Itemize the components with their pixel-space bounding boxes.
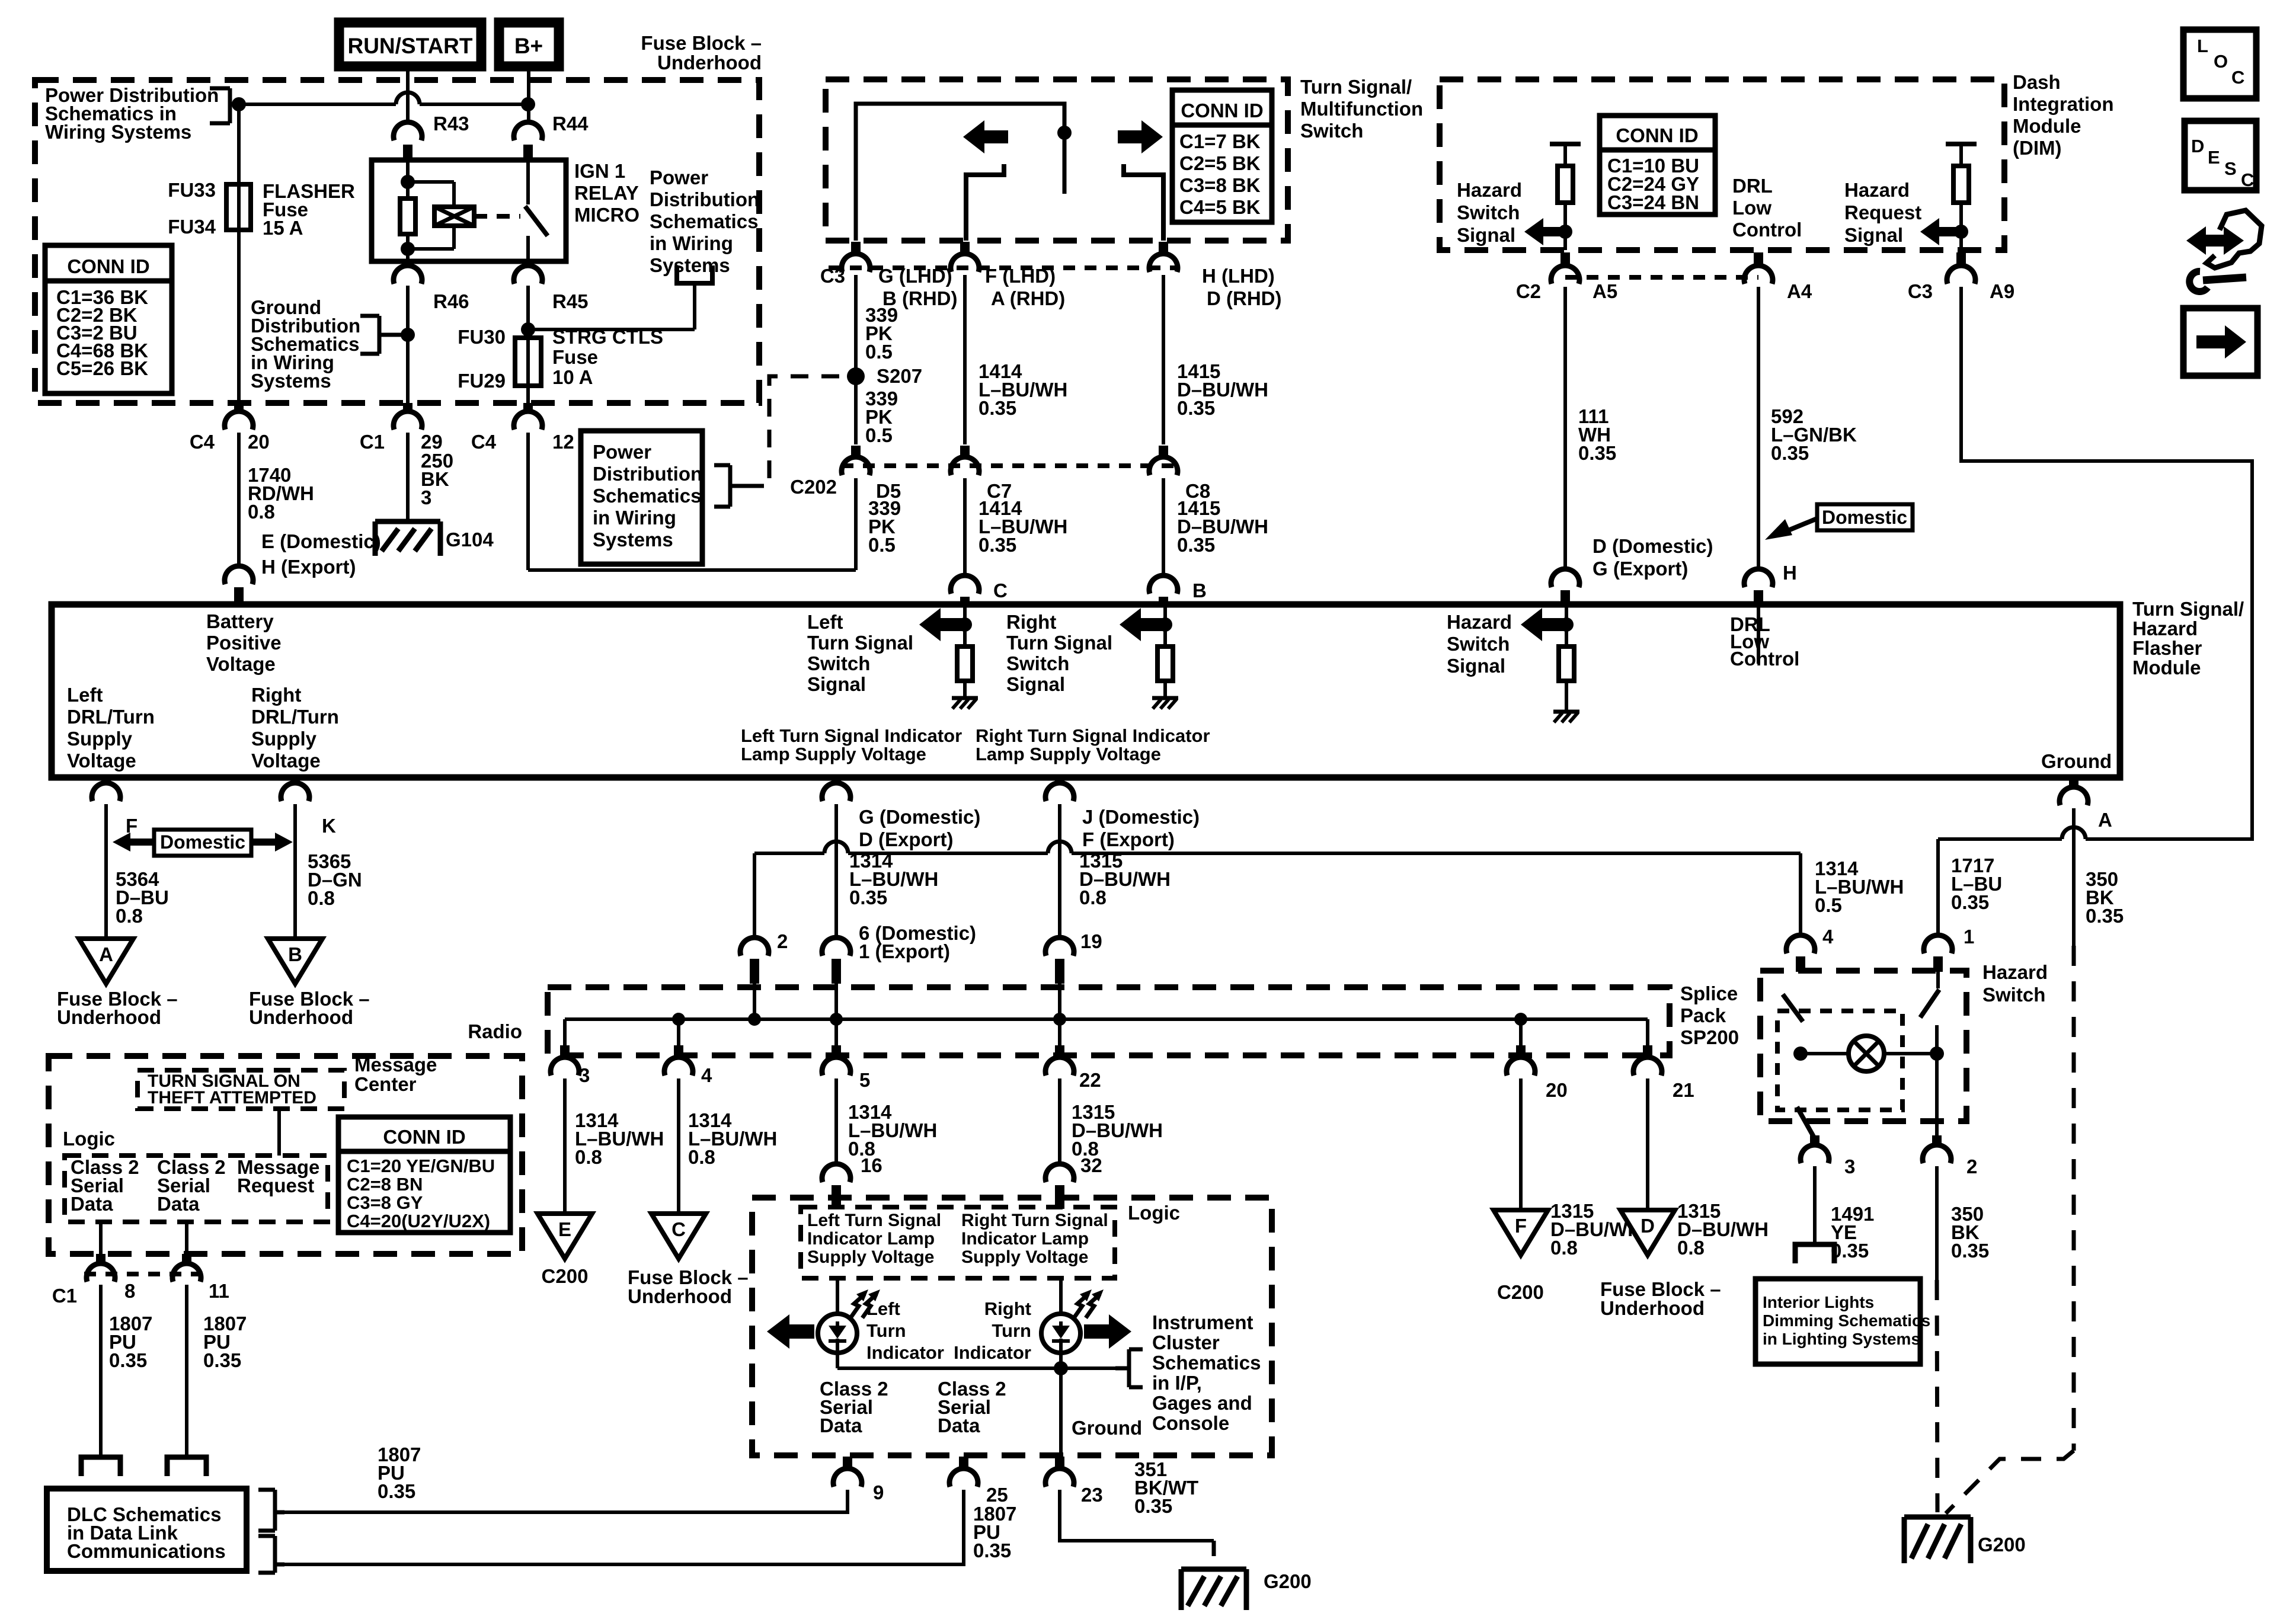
svg-text:8: 8: [124, 1280, 135, 1302]
svg-text:Positive: Positive: [206, 632, 282, 654]
svg-text:in I/P,: in I/P,: [1152, 1372, 1202, 1394]
svg-text:CONN ID: CONN ID: [1181, 100, 1263, 121]
svg-text:Instrument: Instrument: [1152, 1311, 1253, 1333]
svg-text:12: 12: [552, 431, 574, 453]
svg-text:Supply: Supply: [251, 728, 317, 750]
svg-text:15 A: 15 A: [263, 217, 303, 239]
svg-text:E: E: [558, 1218, 571, 1240]
svg-text:A (RHD): A (RHD): [991, 287, 1065, 309]
svg-text:4: 4: [1822, 926, 1834, 948]
svg-text:Underhood: Underhood: [249, 1006, 353, 1028]
svg-text:THEFT ATTEMPTED: THEFT ATTEMPTED: [148, 1088, 316, 1108]
svg-text:16: 16: [861, 1154, 882, 1176]
svg-text:0.5: 0.5: [865, 424, 893, 446]
svg-text:Dimming Schematics: Dimming Schematics: [1763, 1311, 1930, 1330]
svg-text:C: C: [2241, 169, 2254, 190]
svg-text:K: K: [322, 815, 336, 837]
svg-text:0.35: 0.35: [849, 886, 887, 908]
svg-text:RELAY: RELAY: [574, 182, 639, 204]
svg-text:Voltage: Voltage: [206, 653, 276, 675]
svg-text:Radio: Radio: [468, 1020, 522, 1042]
svg-text:R46: R46: [433, 290, 469, 312]
svg-text:C: C: [2231, 67, 2244, 88]
svg-text:C200: C200: [542, 1265, 589, 1287]
svg-text:Domestic: Domestic: [1822, 507, 1907, 528]
svg-text:Signal: Signal: [1844, 224, 1903, 246]
svg-text:0.35: 0.35: [978, 397, 1016, 419]
svg-text:B: B: [1192, 580, 1207, 601]
svg-text:C2=5 BK: C2=5 BK: [1179, 152, 1261, 174]
svg-text:Message: Message: [354, 1054, 437, 1076]
svg-text:1: 1: [1964, 926, 1974, 948]
svg-text:Lamp Supply Voltage: Lamp Supply Voltage: [741, 744, 926, 764]
svg-text:Data: Data: [938, 1414, 980, 1436]
svg-text:FU30: FU30: [458, 326, 506, 348]
svg-text:SP200: SP200: [1680, 1026, 1739, 1048]
svg-text:Distribution: Distribution: [593, 463, 702, 485]
svg-text:0.8: 0.8: [575, 1146, 602, 1168]
svg-text:32: 32: [1080, 1154, 1102, 1176]
svg-text:Dash: Dash: [2013, 71, 2061, 93]
svg-text:Underhood: Underhood: [1600, 1297, 1705, 1319]
svg-text:Systems: Systems: [650, 254, 730, 276]
svg-text:C4: C4: [471, 431, 497, 453]
svg-text:Systems: Systems: [593, 529, 673, 551]
svg-text:CONN ID: CONN ID: [1616, 124, 1698, 146]
svg-text:2: 2: [777, 930, 788, 952]
svg-text:0.8: 0.8: [308, 887, 335, 909]
svg-text:4: 4: [701, 1064, 712, 1086]
svg-text:F: F: [1515, 1215, 1527, 1237]
svg-text:C202: C202: [790, 476, 837, 498]
svg-text:C3=8 GY: C3=8 GY: [347, 1192, 423, 1213]
svg-text:Right: Right: [1006, 611, 1056, 633]
svg-text:D (RHD): D (RHD): [1207, 287, 1281, 309]
svg-text:Lamp Supply Voltage: Lamp Supply Voltage: [976, 744, 1161, 764]
svg-text:0.8: 0.8: [1677, 1237, 1705, 1259]
svg-text:Module: Module: [2132, 657, 2201, 679]
svg-text:C4: C4: [190, 431, 215, 453]
svg-text:R45: R45: [552, 290, 589, 312]
svg-text:C2: C2: [1516, 280, 1541, 302]
svg-text:0.35: 0.35: [978, 534, 1016, 556]
svg-text:Supply: Supply: [67, 728, 133, 750]
svg-text:C3: C3: [820, 265, 845, 287]
svg-text:Interior Lights: Interior Lights: [1763, 1293, 1874, 1311]
svg-text:Turn Signal: Turn Signal: [1006, 632, 1112, 654]
svg-text:C3=24 BN: C3=24 BN: [1607, 191, 1699, 213]
svg-text:Request: Request: [1844, 201, 1921, 223]
svg-text:0.8: 0.8: [1550, 1237, 1578, 1259]
svg-text:9: 9: [873, 1481, 884, 1503]
svg-text:19: 19: [1080, 930, 1102, 952]
svg-text:0.35: 0.35: [1771, 442, 1809, 464]
svg-text:FU33: FU33: [168, 179, 216, 201]
svg-text:DRL/Turn: DRL/Turn: [67, 706, 155, 728]
svg-text:A9: A9: [1990, 280, 2014, 302]
svg-text:L: L: [2197, 36, 2208, 56]
svg-text:Underhood: Underhood: [628, 1285, 732, 1307]
svg-text:Switch: Switch: [1300, 120, 1363, 142]
svg-text:Module: Module: [2013, 115, 2081, 137]
svg-text:C3=8 BK: C3=8 BK: [1179, 174, 1261, 196]
svg-text:1 (Export): 1 (Export): [859, 940, 950, 962]
svg-text:D: D: [2191, 136, 2204, 156]
svg-text:Voltage: Voltage: [251, 750, 321, 772]
svg-text:Switch: Switch: [1006, 652, 1069, 674]
svg-text:2: 2: [1966, 1156, 1977, 1177]
svg-text:3: 3: [579, 1064, 590, 1086]
svg-text:CONN ID: CONN ID: [67, 255, 149, 277]
svg-text:Hazard: Hazard: [1447, 611, 1512, 633]
svg-text:20: 20: [1546, 1079, 1568, 1101]
svg-text:C1=7 BK: C1=7 BK: [1179, 130, 1261, 152]
svg-text:Right: Right: [251, 684, 301, 706]
svg-text:G (LHD): G (LHD): [878, 265, 952, 287]
svg-text:(DIM): (DIM): [2013, 137, 2061, 159]
svg-text:F (Export): F (Export): [1082, 828, 1175, 850]
svg-text:0.8: 0.8: [116, 905, 143, 927]
svg-text:0.35: 0.35: [203, 1349, 241, 1371]
svg-text:0.5: 0.5: [1815, 894, 1842, 916]
svg-text:Flasher: Flasher: [2132, 637, 2202, 659]
svg-text:Switch: Switch: [1447, 633, 1510, 655]
svg-text:Signal: Signal: [1457, 224, 1515, 246]
svg-text:DRL: DRL: [1732, 175, 1773, 197]
svg-text:H: H: [1783, 562, 1797, 584]
svg-text:Left: Left: [866, 1298, 900, 1319]
svg-text:D (Export): D (Export): [859, 828, 954, 850]
svg-text:0.35: 0.35: [378, 1480, 415, 1502]
svg-text:Signal: Signal: [1006, 673, 1065, 695]
svg-text:Systems: Systems: [251, 370, 331, 392]
svg-text:MICRO: MICRO: [574, 204, 639, 226]
svg-text:Left Turn Signal Indicator: Left Turn Signal Indicator: [741, 725, 962, 746]
svg-text:in Lighting Systems: in Lighting Systems: [1763, 1330, 1920, 1348]
svg-text:Turn: Turn: [992, 1320, 1031, 1341]
svg-text:B: B: [288, 943, 302, 965]
svg-text:10 A: 10 A: [552, 366, 593, 388]
svg-text:Schematics: Schematics: [650, 210, 758, 232]
svg-text:3: 3: [1844, 1156, 1855, 1177]
svg-text:0.35: 0.35: [109, 1349, 147, 1371]
svg-text:Hazard: Hazard: [2132, 617, 2198, 639]
svg-text:C4=20(U2Y/U2X): C4=20(U2Y/U2X): [347, 1211, 490, 1231]
svg-text:Splice: Splice: [1680, 982, 1738, 1004]
svg-text:R44: R44: [552, 113, 589, 135]
svg-text:Hazard: Hazard: [1457, 179, 1522, 201]
svg-text:Low: Low: [1732, 197, 1771, 219]
svg-text:C2=8 BN: C2=8 BN: [347, 1174, 423, 1195]
svg-text:Signal: Signal: [807, 673, 866, 695]
svg-text:A: A: [99, 943, 113, 965]
svg-text:Data: Data: [157, 1193, 200, 1215]
svg-text:Turn Signal/: Turn Signal/: [2132, 598, 2244, 620]
svg-text:S207: S207: [877, 365, 922, 387]
svg-text:Control: Control: [1732, 219, 1802, 241]
svg-text:Turn Signal/: Turn Signal/: [1300, 76, 1412, 98]
svg-text:J (Domestic): J (Domestic): [1082, 806, 1200, 828]
svg-text:Switch: Switch: [807, 652, 870, 674]
svg-text:Voltage: Voltage: [67, 750, 136, 772]
svg-text:Schematics: Schematics: [593, 485, 701, 507]
svg-text:Left: Left: [67, 684, 103, 706]
svg-text:Logic: Logic: [63, 1128, 115, 1150]
svg-text:F (LHD): F (LHD): [985, 265, 1056, 287]
svg-text:Gages and: Gages and: [1152, 1392, 1252, 1414]
svg-text:C1: C1: [360, 431, 385, 453]
svg-text:0.35: 0.35: [1177, 397, 1215, 419]
svg-text:Ground: Ground: [1072, 1417, 1142, 1439]
svg-text:A: A: [2098, 809, 2112, 831]
svg-text:Underhood: Underhood: [57, 1006, 161, 1028]
svg-text:0.35: 0.35: [1951, 891, 1989, 913]
svg-text:A4: A4: [1787, 280, 1812, 302]
svg-text:in Wiring: in Wiring: [593, 507, 676, 529]
svg-text:Turn Signal: Turn Signal: [807, 632, 913, 654]
svg-text:3: 3: [421, 487, 431, 508]
svg-text:Signal: Signal: [1447, 655, 1505, 677]
svg-text:Indicator Lamp: Indicator Lamp: [961, 1229, 1089, 1249]
svg-text:H (Export): H (Export): [261, 556, 356, 578]
svg-text:Power: Power: [593, 441, 651, 463]
svg-text:21: 21: [1673, 1079, 1694, 1101]
svg-text:FU34: FU34: [168, 216, 216, 238]
svg-text:0.35: 0.35: [1134, 1495, 1172, 1517]
svg-text:Hazard: Hazard: [1844, 179, 1910, 201]
svg-text:F: F: [126, 815, 137, 837]
svg-text:Request: Request: [237, 1174, 314, 1196]
svg-text:Control: Control: [1730, 648, 1799, 670]
svg-text:Right: Right: [984, 1298, 1031, 1319]
svg-text:Cluster: Cluster: [1152, 1332, 1220, 1353]
svg-text:23: 23: [1081, 1484, 1103, 1506]
svg-text:Right Turn Signal: Right Turn Signal: [961, 1211, 1108, 1230]
svg-text:Hazard: Hazard: [1982, 961, 2048, 983]
svg-text:STRG CTLS: STRG CTLS: [552, 326, 663, 348]
svg-text:0.35: 0.35: [1578, 442, 1616, 464]
svg-text:0.8: 0.8: [1079, 886, 1107, 908]
svg-text:Pack: Pack: [1680, 1004, 1726, 1026]
svg-text:G104: G104: [446, 529, 494, 551]
svg-text:Left: Left: [807, 611, 843, 633]
svg-text:D (Domestic): D (Domestic): [1593, 535, 1713, 557]
svg-text:C200: C200: [1497, 1281, 1544, 1303]
svg-text:20: 20: [248, 431, 270, 453]
svg-text:Center: Center: [354, 1073, 417, 1095]
svg-text:CONN ID: CONN ID: [383, 1126, 465, 1148]
svg-text:Underhood: Underhood: [657, 52, 762, 73]
svg-text:22: 22: [1079, 1069, 1101, 1091]
svg-text:E: E: [2208, 147, 2220, 168]
svg-text:in Wiring: in Wiring: [650, 232, 733, 254]
svg-text:D: D: [1641, 1215, 1655, 1237]
svg-text:Battery: Battery: [206, 610, 274, 632]
svg-text:C1=20 YE/GN/BU: C1=20 YE/GN/BU: [347, 1156, 495, 1176]
svg-text:S: S: [2224, 158, 2237, 179]
svg-text:Domestic: Domestic: [160, 831, 245, 853]
svg-text:Schematics: Schematics: [1152, 1352, 1261, 1374]
svg-text:0.5: 0.5: [865, 341, 893, 363]
svg-text:Ground: Ground: [2041, 750, 2112, 772]
svg-text:Switch: Switch: [1457, 201, 1520, 223]
svg-text:G (Export): G (Export): [1593, 558, 1688, 580]
svg-text:Supply Voltage: Supply Voltage: [961, 1247, 1088, 1267]
svg-text:Distribution: Distribution: [650, 188, 759, 210]
svg-text:Indicator: Indicator: [954, 1342, 1031, 1363]
svg-text:Fuse: Fuse: [552, 346, 598, 368]
svg-text:C: C: [671, 1218, 686, 1240]
svg-text:C4=5 BK: C4=5 BK: [1179, 196, 1261, 218]
svg-text:O: O: [2214, 51, 2228, 72]
svg-text:Data: Data: [820, 1414, 862, 1436]
svg-text:Logic: Logic: [1128, 1202, 1180, 1224]
svg-text:0.5: 0.5: [868, 534, 896, 556]
svg-text:0.8: 0.8: [248, 501, 275, 523]
svg-text:C1: C1: [52, 1285, 77, 1307]
svg-text:Indicator Lamp: Indicator Lamp: [807, 1229, 935, 1249]
svg-text:11: 11: [209, 1280, 229, 1302]
svg-text:0.35: 0.35: [2086, 905, 2124, 927]
svg-text:0.35: 0.35: [1177, 534, 1215, 556]
svg-text:R43: R43: [433, 113, 469, 135]
svg-text:RUN/START: RUN/START: [347, 34, 472, 58]
svg-text:0.35: 0.35: [973, 1540, 1011, 1561]
svg-text:G (Domestic): G (Domestic): [859, 806, 980, 828]
svg-text:Turn: Turn: [866, 1320, 906, 1341]
svg-text:0.35: 0.35: [1951, 1240, 1989, 1262]
svg-text:Left Turn Signal: Left Turn Signal: [807, 1211, 941, 1230]
svg-text:Supply Voltage: Supply Voltage: [807, 1247, 934, 1267]
svg-text:A5: A5: [1593, 280, 1617, 302]
svg-text:G200: G200: [1978, 1534, 2026, 1556]
svg-text:Wiring Systems: Wiring Systems: [45, 121, 191, 143]
svg-text:B+: B+: [514, 34, 543, 58]
svg-text:C3: C3: [1908, 280, 1933, 302]
svg-text:E (Domestic): E (Domestic): [261, 530, 381, 552]
svg-text:DRL/Turn: DRL/Turn: [251, 706, 339, 728]
svg-text:C5=26 BK: C5=26 BK: [56, 357, 148, 379]
svg-text:Data: Data: [71, 1193, 113, 1215]
svg-text:G200: G200: [1264, 1570, 1312, 1592]
svg-text:Indicator: Indicator: [866, 1342, 944, 1363]
svg-text:FU29: FU29: [458, 370, 506, 392]
svg-text:Communications: Communications: [67, 1540, 226, 1562]
svg-text:Power: Power: [650, 167, 708, 188]
svg-text:Fuse Block –: Fuse Block –: [641, 32, 762, 54]
svg-text:H (LHD): H (LHD): [1202, 265, 1275, 287]
svg-text:5: 5: [859, 1069, 870, 1091]
svg-text:Console: Console: [1152, 1412, 1229, 1434]
svg-text:0.8: 0.8: [688, 1146, 715, 1168]
svg-text:Right Turn Signal Indicator: Right Turn Signal Indicator: [976, 725, 1210, 746]
svg-text:Multifunction: Multifunction: [1300, 98, 1423, 120]
svg-text:Switch: Switch: [1982, 984, 2045, 1006]
svg-text:C: C: [993, 580, 1008, 601]
svg-text:IGN 1: IGN 1: [574, 160, 625, 182]
svg-text:Integration: Integration: [2013, 93, 2114, 115]
